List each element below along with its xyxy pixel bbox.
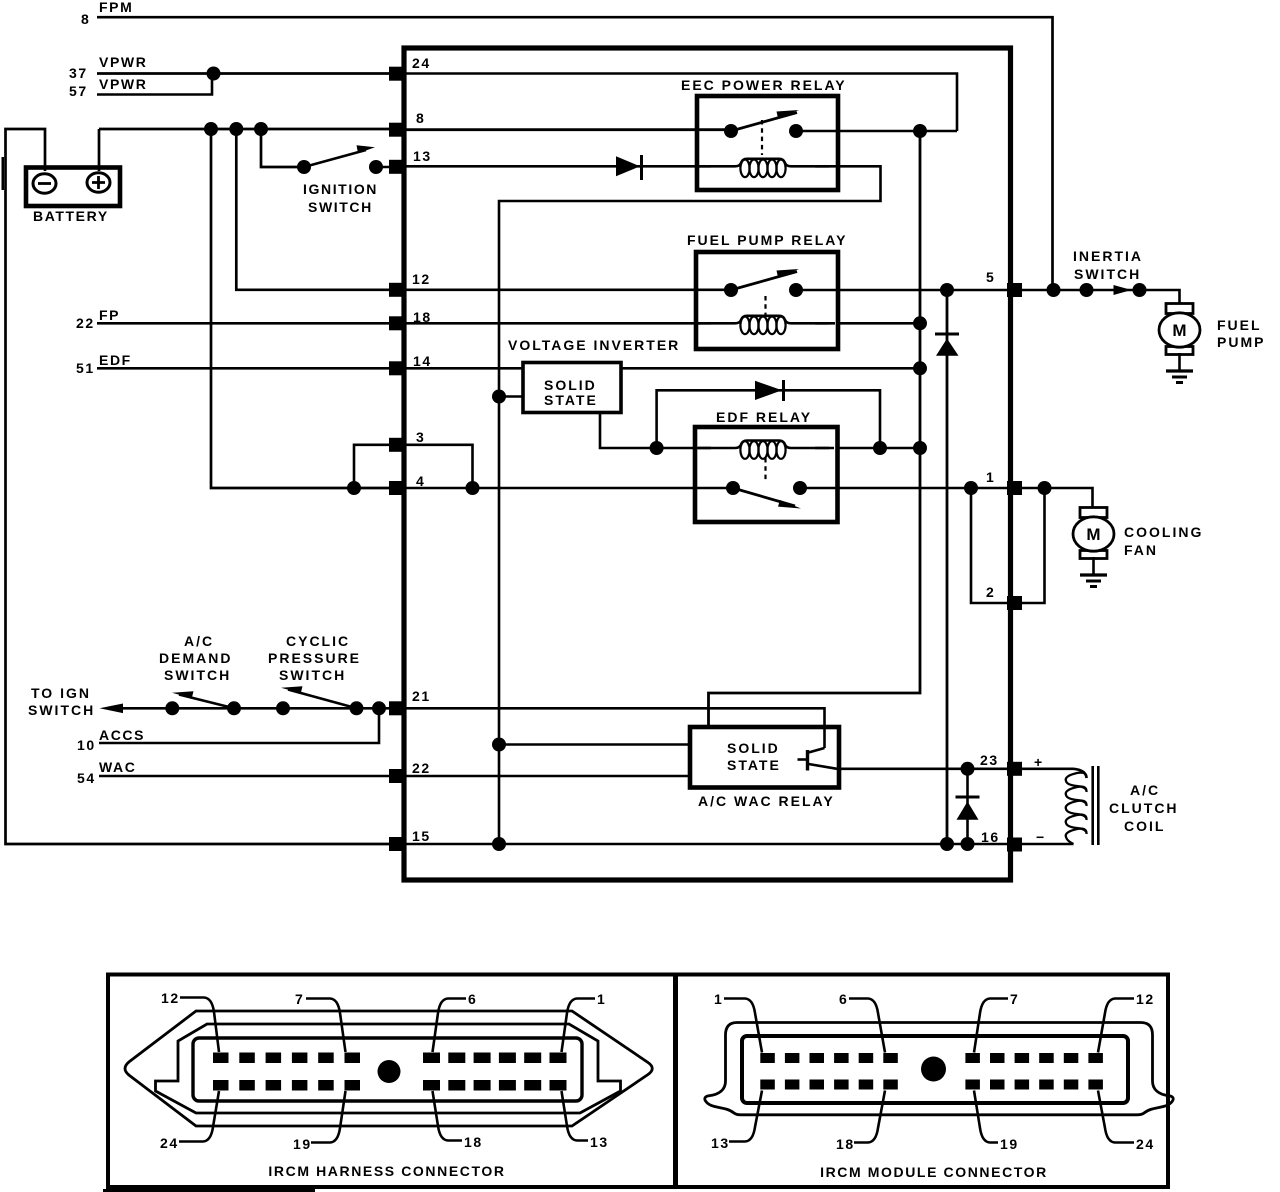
wire EEC coil return to internal vertical bus [499, 166, 881, 844]
module pin dashes bottom row [760, 1080, 1103, 1090]
svg-text:COOLING: COOLING [1124, 524, 1203, 540]
wire ignition switch to pin 13 [376, 166, 395, 169]
svg-text:EEC POWER RELAY: EEC POWER RELAY [681, 77, 847, 93]
svg-text:19: 19 [1000, 1136, 1019, 1152]
svg-text:A/C: A/C [184, 633, 214, 649]
A/C demand switch S3 [159, 633, 241, 715]
svg-text:EDF RELAY: EDF RELAY [716, 409, 812, 425]
svg-text:19: 19 [293, 1136, 312, 1152]
module outer shell [705, 1023, 1173, 1115]
svg-text:4: 4 [416, 473, 425, 489]
junction EDF coil return on bus [913, 441, 927, 455]
wire internal bus vertical to A/C WAC relay [709, 131, 921, 727]
svg-text:12: 12 [1136, 991, 1155, 1007]
svg-text:1: 1 [714, 991, 723, 1007]
junction battery bus B [229, 122, 243, 136]
wire stub to voltage inverter [499, 395, 523, 398]
junction pin 1 right [1038, 481, 1052, 495]
wire WAC output to pin 23 and clutch coil [839, 767, 1074, 770]
svg-text:5: 5 [986, 269, 995, 285]
pin 1 pad [1007, 481, 1022, 495]
wire pin 22 to WAC relay [404, 775, 690, 778]
svg-text:13: 13 [711, 1135, 730, 1151]
pin 23 pad [1007, 762, 1022, 776]
junction x947 bottom [940, 837, 954, 851]
svg-text:24: 24 [412, 55, 431, 71]
wire EEC relay contact out [796, 130, 957, 133]
svg-text:54: 54 [77, 770, 96, 786]
diode CR2 on EDF bypass [755, 381, 782, 400]
svg-text:+: + [1034, 754, 1044, 770]
pin 21 pad [389, 701, 404, 715]
junction VPWR [207, 67, 221, 81]
wire pin 24 to EEC relay contact [404, 74, 957, 132]
wire pin 8 to EEC relay switch [404, 128, 731, 131]
svg-text:EDF: EDF [99, 352, 132, 368]
svg-text:IGNITION: IGNITION [303, 181, 378, 197]
svg-text:24: 24 [1136, 1136, 1155, 1152]
wire pin 13 line to EEC coil [404, 165, 700, 168]
pin 3 pad [389, 438, 404, 452]
svg-text:A/C WAC RELAY: A/C WAC RELAY [698, 793, 835, 809]
svg-text:COIL: COIL [1124, 818, 1165, 834]
IRCM module connector J2 [705, 991, 1173, 1180]
junction EDF bypass return [873, 441, 887, 455]
svg-text:FUEL: FUEL [1217, 317, 1262, 333]
junction pin4 right [466, 481, 480, 495]
svg-text:6: 6 [468, 991, 477, 1007]
wire battery bus to ignition switch [261, 129, 304, 167]
svg-text:18: 18 [464, 1134, 483, 1150]
wire ACCS to switch line [99, 708, 379, 743]
svg-text:13: 13 [413, 148, 432, 164]
svg-text:INERTIA: INERTIA [1073, 248, 1143, 264]
svg-text:BATTERY: BATTERY [33, 208, 109, 224]
svg-text:CYCLIC: CYCLIC [286, 633, 350, 649]
svg-text:15: 15 [412, 828, 431, 844]
svg-text:7: 7 [1010, 991, 1019, 1007]
wire pin 12 to fuel pump relay switch [404, 288, 731, 291]
svg-text:PRESSURE: PRESSURE [268, 650, 361, 666]
junction internal VPWR bus top [913, 124, 927, 138]
wire fuel pump relay contact to pin 5 and inertia switch [796, 290, 1180, 304]
svg-text:STATE: STATE [727, 757, 781, 773]
svg-text:51: 51 [76, 360, 95, 376]
wire VPWR 57 joining VPWR 37 [97, 74, 212, 95]
wire pin 4 line to EDF relay switch [395, 487, 733, 490]
harness inner shell [156, 1024, 621, 1113]
svg-text:SOLID: SOLID [727, 740, 780, 756]
svg-text:CLUTCH: CLUTCH [1109, 800, 1179, 816]
svg-text:22: 22 [76, 315, 95, 331]
pin 13 pad [389, 160, 404, 174]
pin 15 pad [389, 837, 404, 851]
pin 12 pad [389, 283, 404, 297]
svg-text:57: 57 [69, 83, 88, 99]
wire pin 21 to WAC transistor [404, 708, 825, 748]
wire WAC to pin 22 [99, 775, 395, 778]
scan artifact left edge [2, 157, 5, 190]
svg-text:FPM: FPM [99, 0, 133, 15]
harness pin dashes top row [213, 1053, 567, 1064]
diode CR4 on x967 vertical [956, 796, 980, 799]
wire VPWR 37 to IRCM pin 24 [97, 72, 395, 75]
panel divider [673, 975, 678, 1188]
junction battery bus A [204, 122, 218, 136]
junction ACCS [372, 701, 386, 715]
module pin field [742, 1036, 1128, 1103]
wire fan feed vertical x947 [946, 290, 949, 844]
wire EDF coil return [837, 447, 920, 450]
wire battery bus down to pin 4 line [211, 129, 395, 488]
svg-text:TO IGN: TO IGN [31, 685, 91, 701]
svg-text:IRCM HARNESS CONNECTOR: IRCM HARNESS CONNECTOR [268, 1163, 505, 1179]
wire pin1-pin2 loop [971, 488, 1045, 603]
diode CR3 on x947 vertical [935, 333, 959, 336]
wire diode branch x967 [966, 769, 969, 844]
IRCM harness connector J1 [125, 990, 652, 1179]
svg-text:VPWR: VPWR [99, 54, 147, 70]
pin 16 pad [1007, 838, 1022, 852]
harness center post [378, 1060, 401, 1083]
wire EDF to pin 14 [97, 367, 395, 370]
svg-text:24: 24 [160, 1135, 179, 1151]
wire pin 14 / EDF input line [404, 367, 920, 370]
svg-text:SWITCH: SWITCH [164, 667, 231, 683]
svg-text:23: 23 [980, 752, 999, 768]
wire battery bus down to pin 12 line [236, 129, 395, 290]
svg-text:8: 8 [416, 110, 425, 126]
svg-text:8: 8 [81, 11, 90, 27]
transistor Q1 inside WAC relay [806, 750, 809, 771]
svg-text:21: 21 [412, 688, 431, 704]
svg-text:18: 18 [836, 1136, 855, 1152]
pin 18 pad [389, 316, 404, 330]
module pin dashes top row [760, 1053, 1103, 1063]
cyclic pressure switch S4 [268, 633, 364, 715]
svg-text:1: 1 [986, 469, 995, 485]
ignition switch S1 [297, 145, 383, 215]
svg-text:7: 7 [295, 991, 304, 1007]
svg-text:3: 3 [416, 429, 425, 445]
junction x947 top [940, 283, 954, 297]
svg-text:PUMP: PUMP [1217, 334, 1265, 350]
svg-text:2: 2 [986, 584, 995, 600]
junction pin4 left [347, 481, 361, 495]
svg-text:VPWR: VPWR [99, 76, 147, 92]
junction x499 bottom [492, 837, 506, 851]
svg-text:22: 22 [412, 760, 431, 776]
junction battery bus C [254, 122, 268, 136]
svg-text:FP: FP [99, 307, 120, 323]
svg-text:1: 1 [597, 991, 606, 1007]
pin 5 pad [1007, 283, 1022, 297]
svg-text:13: 13 [590, 1134, 609, 1150]
wire FPM from EEC pin 8 to inertia switch line [97, 17, 1053, 290]
harness pin field [193, 1038, 582, 1101]
svg-text:STATE: STATE [544, 392, 598, 408]
harness pin dashes bottom row [213, 1080, 567, 1091]
wire battery negative loop to pin 15 [6, 129, 396, 844]
svg-text:14: 14 [413, 353, 432, 369]
svg-text:SWITCH: SWITCH [308, 199, 373, 215]
diode CR1 on pin 13 line [616, 156, 640, 176]
wire pin 3 to pin 4 jumper bracket [354, 445, 473, 488]
pin 24 pad [389, 67, 404, 81]
pin 22 pad [389, 769, 404, 783]
svg-text:A/C: A/C [1130, 782, 1160, 798]
svg-text:WAC: WAC [99, 759, 136, 775]
junction x967 bottom [961, 837, 975, 851]
wire battery positive bus to pin 8 [99, 129, 395, 171]
svg-text:SWITCH: SWITCH [28, 702, 95, 718]
pin 8 pad [389, 123, 404, 137]
wire EDF relay contact to pin 1 and cooling fan [800, 488, 1093, 508]
panel frame [108, 975, 1168, 1188]
junction pin 1 left [964, 481, 978, 495]
junction FP coil return on bus [913, 316, 927, 330]
harness outer shell [125, 1011, 652, 1126]
wire stub x499 to WAC relay [499, 743, 690, 746]
svg-text:10: 10 [77, 737, 96, 753]
pin 4 pad [389, 481, 404, 495]
junction solid state lower input [492, 390, 506, 404]
pin 2 pad [1007, 596, 1022, 610]
svg-text:IRCM MODULE CONNECTOR: IRCM MODULE CONNECTOR [820, 1164, 1048, 1180]
svg-text:ACCS: ACCS [99, 727, 145, 743]
wire A/C switch line to pin 21 [122, 707, 395, 710]
junction pin 23 diode top [961, 762, 975, 776]
module center post [921, 1057, 946, 1082]
junction EDF coil input [650, 441, 664, 455]
pin 14 pad [389, 361, 404, 375]
svg-text:FAN: FAN [1124, 542, 1158, 558]
svg-text:−: − [1036, 829, 1046, 845]
svg-text:DEMAND: DEMAND [159, 650, 232, 666]
scan artifact bottom-left [103, 1189, 315, 1192]
wire pin 15 to pin 16 line [404, 843, 1074, 846]
svg-text:SWITCH: SWITCH [279, 667, 346, 683]
battery B1 [26, 168, 120, 225]
svg-text:12: 12 [412, 271, 431, 287]
svg-text:SWITCH: SWITCH [1074, 266, 1141, 282]
junction WAC stub [492, 738, 506, 752]
svg-text:37: 37 [69, 65, 88, 81]
svg-text:VOLTAGE INVERTER: VOLTAGE INVERTER [508, 337, 680, 353]
svg-text:16: 16 [981, 829, 1000, 845]
svg-text:FUEL PUMP RELAY: FUEL PUMP RELAY [687, 232, 847, 248]
wire FP to pin 18 [97, 322, 395, 325]
svg-text:SOLID: SOLID [544, 377, 597, 393]
svg-text:6: 6 [839, 991, 848, 1007]
svg-text:12: 12 [161, 990, 180, 1006]
junction EDF input on bus [913, 361, 927, 375]
wire EDF coil bypass diode branch [657, 390, 880, 448]
wire voltage inverter output to EDF coil [600, 413, 695, 449]
wire pin 18 / FP coil line [404, 322, 920, 325]
